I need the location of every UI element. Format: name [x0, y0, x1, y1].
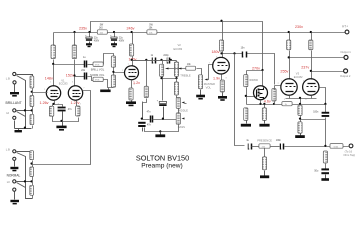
label 1.26v	[40, 101, 49, 105]
label BRILLANT	[6, 101, 22, 105]
capacitor C1 22u 400V (filter)	[85, 33, 99, 44]
wire treble wiper bus	[166, 68, 187, 70]
node V2a grid mix junction	[112, 71, 114, 73]
ground presence wiper	[260, 171, 269, 179]
resistor R19 V2b plate	[219, 22, 223, 58]
node brilliant grid junction	[31, 91, 33, 93]
ground R22	[241, 121, 251, 127]
resistor R16 10k to master	[186, 64, 196, 70]
capacitor C12 100n feedback	[313, 105, 329, 147]
resistor R2 10k 5W (rail dropper)	[147, 25, 157, 35]
node brilliant HI junction	[31, 109, 33, 111]
jack NORMAL LB tip	[6, 147, 16, 153]
svg-text:PRESENCE: PRESENCE	[257, 138, 272, 142]
svg-text:ECC83: ECC83	[174, 47, 183, 51]
capacitor C3 1u (V1a plate coupling)	[54, 57, 94, 67]
wire MOSFET source down	[260, 101, 262, 105]
wire gate node y70	[247, 70, 264, 72]
node V1a cathode	[52, 103, 54, 105]
svg-text:Output 1: Output 1	[340, 50, 351, 54]
node V3 cathode junction	[299, 97, 301, 99]
svg-text:Ohm Tap): Ohm Tap)	[343, 153, 355, 157]
svg-text:HI: HI	[6, 111, 9, 115]
svg-text:1: 1	[128, 63, 129, 65]
terminal HT+	[342, 25, 349, 34]
ground BRILLIANT LB sleeve	[10, 85, 19, 97]
node V1a plate tap	[52, 63, 54, 65]
wire B+ upper branch (y=20)	[91, 22, 263, 71]
wire gate into MOSFET	[247, 96, 256, 98]
node rail junction x89.5	[88, 31, 90, 33]
wire NORMAL HI switch contact	[17, 183, 26, 188]
node bus junction x274.6	[273, 103, 275, 105]
triode V1a cathode network: wire	[53, 101, 63, 107]
ground MASTER VOL	[196, 90, 205, 100]
svg-text:3: 3	[80, 104, 81, 106]
node rail junction x288.7	[288, 31, 290, 33]
wire NORMAL LB tip to R11	[17, 151, 33, 153]
label BASS	[178, 125, 185, 129]
node cathode ground junction	[60, 120, 62, 122]
capacitor C11 10n coupling	[241, 48, 247, 58]
node normal switch crossing	[24, 180, 26, 182]
wire drain to MOSFET	[262, 71, 264, 87]
wire feedback bus y103.8	[247, 104, 327, 106]
wire BRILLIANT HI switch diagonal	[17, 112, 26, 117]
svg-text:7: 7	[83, 88, 84, 90]
resistor R6 mix (norm)	[111, 75, 115, 87]
resistor R12 normal input mid	[30, 167, 34, 177]
wire V1b grid from normal channel	[32, 91, 91, 165]
wire V3 cathode bus	[286, 96, 317, 105]
svg-text:L.B: L.B	[6, 147, 10, 151]
svg-text:230v: 230v	[295, 25, 303, 29]
svg-text:255v: 255v	[280, 70, 288, 74]
svg-text:L.B: L.B	[6, 76, 10, 80]
triode V2a ECC83	[125, 66, 139, 80]
title SOLTON BV150	[136, 154, 189, 163]
resistor R7 input 1M (brilliant)	[30, 76, 34, 88]
wire presence bus to tap	[285, 146, 349, 148]
svg-text:BRILL VOL: BRILL VOL	[91, 67, 105, 71]
label 1.2v	[133, 81, 140, 85]
label 1.22v	[71, 101, 80, 105]
resistor R25 V3a plate	[287, 33, 291, 80]
capacitor C14 100n presence	[276, 140, 284, 149]
wire NORM VOL to mix resistor bottom	[104, 80, 114, 88]
node drain junction	[261, 69, 263, 71]
triode V3a ECC82	[281, 79, 297, 95]
pin numbers V3a	[278, 80, 285, 101]
wire mix resistors to V2a grid	[114, 68, 125, 76]
svg-text:2: 2	[44, 89, 45, 91]
svg-text:8: 8	[305, 99, 306, 101]
node rail junction x114	[113, 31, 115, 33]
node 47n right junction	[162, 118, 164, 120]
svg-text:Preamp (new): Preamp (new)	[141, 163, 182, 170]
svg-text:(To 16: (To 16	[345, 150, 353, 154]
capacitor C9 47n series	[143, 102, 177, 123]
node V2b plate tap	[220, 52, 222, 54]
resistor R1 1k5 5W (rail dropper)	[97, 25, 107, 35]
resistor R4 100k (V1b plate)	[72, 33, 76, 59]
node V2b feed junction on upper branch	[220, 20, 222, 22]
node V2a plate tap	[131, 59, 133, 61]
resistor R23 bus lower right	[262, 105, 266, 121]
label 170v	[129, 57, 137, 61]
wire V3b grid	[320, 88, 326, 105]
node rail junction x310.8	[310, 31, 312, 33]
resistor R20 V2b cathode	[220, 75, 224, 93]
label 246v	[127, 26, 135, 30]
svg-text:237v: 237v	[301, 65, 309, 69]
wire output2	[312, 71, 345, 73]
node rail junction x131.6	[131, 31, 133, 33]
svg-text:ECC82: ECC82	[294, 75, 303, 79]
terminal Output 2	[340, 69, 351, 78]
svg-text:ECC83: ECC83	[59, 82, 68, 86]
node cathode-bus junction	[299, 103, 301, 105]
node presence tap	[233, 52, 235, 54]
node gate junction	[245, 95, 247, 97]
resistor R22 bus lower left	[244, 108, 248, 121]
ground R23	[259, 121, 269, 127]
svg-text:V2: V2	[178, 43, 182, 47]
svg-text:7: 7	[209, 63, 210, 65]
jack NORMAL LB sleeve	[13, 157, 16, 160]
svg-text:MIDDLE: MIDDLE	[178, 108, 188, 112]
svg-text:1.22v: 1.22v	[71, 101, 80, 105]
resistor R29 feedback divider lower	[298, 122, 302, 133]
pin numbers V2a	[122, 63, 135, 86]
wire NORMAL switch vertical	[17, 153, 33, 199]
pin numbers V1b	[72, 82, 84, 106]
resistor R15 V2a cathode	[129, 81, 133, 101]
resistor R27 feedback series (bus)	[282, 102, 292, 106]
jack BRILLIANT LB tip	[6, 72, 16, 80]
triode V1a ECC83	[46, 86, 60, 100]
svg-text:TREBLE: TREBLE	[180, 74, 191, 78]
wire V1b plate feed	[74, 60, 76, 87]
svg-text:BRILLANT: BRILLANT	[6, 101, 22, 105]
potentiometer TREBLE	[133, 61, 179, 77]
label V3 ECC82	[294, 71, 303, 78]
resistor R28 feedback divider upper	[298, 105, 302, 122]
jack NORMAL HI tip	[7, 180, 16, 184]
svg-text:246v: 246v	[127, 26, 135, 30]
svg-text:2: 2	[278, 83, 279, 85]
label 4.6v	[264, 100, 271, 104]
label 180v	[212, 50, 220, 54]
node output2 tap	[310, 70, 312, 72]
svg-text:HI: HI	[7, 180, 10, 184]
resistor R9 V1a cathode	[49, 106, 53, 116]
wire V2a plate to tone caps	[133, 60, 177, 62]
wire master wiper to V2b grid	[208, 65, 214, 80]
svg-text:6: 6	[72, 82, 73, 84]
resistor R17 slope lower	[143, 61, 149, 120]
svg-text:VOL: VOL	[206, 85, 212, 89]
potentiometer MASTER VOL	[197, 69, 208, 89]
node presence tap junction	[324, 145, 326, 147]
wire B+ rail main (y=32)	[54, 32, 346, 34]
jack BRILLIANT HI sleeve	[13, 116, 16, 119]
potentiometer presence wiper leg	[262, 149, 266, 170]
node divider junction	[299, 118, 301, 120]
ground BRILLIANT HI	[15, 129, 22, 133]
label MASTER VOL	[204, 82, 215, 89]
node pot bottom left	[160, 77, 162, 79]
resistor R18 tone mid	[174, 79, 178, 98]
label MIDDLE	[178, 108, 188, 112]
label 255v	[280, 70, 288, 74]
label 237v	[301, 65, 309, 69]
wire NORMAL HI tip to divider	[17, 181, 33, 183]
svg-text:400V: 400V	[94, 40, 100, 42]
potentiometer BASS	[176, 109, 184, 125]
capacitor C13 1u presence in	[246, 140, 251, 149]
triode V1b ECC83	[68, 86, 82, 100]
label 235v	[79, 26, 87, 30]
label 230v	[295, 25, 303, 29]
wire divider to cap	[301, 119, 326, 121]
label BRILL VOL	[91, 67, 105, 71]
node V1b plate tap	[73, 74, 75, 76]
capacitor C5 47u (V1a cathode bypass)	[58, 107, 73, 121]
svg-text:180v: 180v	[212, 50, 220, 54]
ground C15	[321, 175, 329, 181]
wire presence to 100n	[271, 146, 280, 148]
triode V2b ECC83	[213, 57, 230, 74]
resistor R14 V2a plate	[130, 33, 134, 67]
label 148v	[45, 77, 53, 81]
jack NORMAL HI sleeve	[13, 188, 16, 191]
svg-text:100n: 100n	[276, 140, 282, 142]
ground feedback divider	[295, 134, 305, 139]
capacitor C6 1n	[151, 55, 156, 64]
svg-text:1.26v: 1.26v	[40, 101, 49, 105]
wire output1	[290, 57, 345, 59]
node rail junction x74.5	[73, 31, 75, 33]
wire pots bottom bus y78	[163, 77, 178, 79]
ground V1 cathodes	[56, 122, 66, 131]
svg-text:MASTER: MASTER	[204, 82, 215, 86]
svg-text:235v: 235v	[79, 26, 87, 30]
label 1.9v	[213, 76, 220, 80]
ground V2a cathode	[126, 101, 136, 107]
wire V3a grid	[275, 86, 282, 90]
resistor R24 V3a grid leak	[272, 89, 276, 105]
svg-text:220p: 220p	[163, 55, 169, 57]
ground NORMAL LB sleeve	[10, 161, 18, 172]
svg-text:2: 2	[122, 70, 123, 72]
wire V2b plate coupling run	[223, 54, 275, 85]
potentiometer BRILL VOL 470k	[93, 62, 103, 67]
svg-text:8: 8	[226, 78, 227, 80]
transistor Q1 MOSFET	[254, 86, 268, 100]
resistor R3 100k (V1a plate)	[51, 33, 55, 59]
ground volume pots	[100, 88, 110, 93]
node V3b grid bus junction	[324, 103, 326, 105]
wire BRILLIANT HI sleeve ground bus	[15, 121, 32, 129]
node switch ground junction	[24, 127, 26, 129]
svg-text:IRF800: IRF800	[249, 78, 258, 82]
resistor R8 input 68k (brilliant)	[30, 96, 34, 107]
node output1 tap	[288, 56, 290, 58]
title Preamp (new)	[141, 163, 182, 170]
svg-text:NORMAL: NORMAL	[7, 173, 21, 177]
label NORMAL	[7, 173, 21, 177]
jack BRILLIANT LB sleeve	[13, 81, 16, 84]
wire normal grid stub	[32, 161, 34, 168]
potentiometer PRESENCE 22k	[252, 138, 273, 148]
ground tone stack	[155, 132, 165, 138]
potentiometer slope 560k	[160, 61, 164, 77]
resistor R30 to speaker tap	[330, 144, 343, 149]
wire presence feed vertical	[235, 54, 245, 146]
capacitor C15 50u tap	[314, 164, 329, 175]
svg-text:1.2v: 1.2v	[133, 81, 140, 85]
wire BRILLIANT HI tip to divider node	[17, 110, 33, 112]
resistor R21 gate (IRF800)	[244, 71, 248, 105]
svg-text:270v: 270v	[252, 67, 260, 71]
label NORM VOL	[90, 73, 105, 77]
node tone tap x170.8	[170, 59, 172, 61]
svg-text:HT+: HT+	[342, 25, 348, 29]
svg-text:148v: 148v	[45, 77, 53, 81]
svg-text:1: 1	[50, 82, 51, 84]
label V2 ECC83	[174, 43, 183, 51]
ground below C2	[111, 43, 117, 47]
capacitor C2 22u 400V (filter)	[110, 33, 124, 44]
svg-text:V3: V3	[296, 71, 300, 75]
node normal lower junction	[30, 180, 32, 182]
wire BRILLIANT LB tip to R7	[17, 75, 33, 77]
svg-text:Output 2: Output 2	[340, 74, 351, 78]
potentiometer NORM VOL 470k	[93, 77, 103, 82]
resistor R26 V3b plate	[309, 33, 313, 80]
node normal grid junction	[30, 162, 32, 164]
wire bass bottom to ground bus	[145, 125, 179, 132]
wire V1a plate feed	[53, 60, 55, 87]
terminal Output 1	[340, 50, 351, 59]
svg-text:100n: 100n	[313, 112, 319, 114]
svg-text:152v: 152v	[66, 73, 74, 77]
wire brilliant grid to V1a	[33, 89, 48, 97]
svg-text:400V: 400V	[119, 40, 125, 42]
resistor R11 normal input top	[30, 151, 34, 160]
wire V1 cathode ground bus	[53, 117, 79, 122]
pin numbers V2b	[209, 56, 227, 79]
ground NORMAL HI sleeve	[10, 192, 19, 205]
node tone ground junction	[159, 130, 161, 132]
node source junction	[259, 103, 261, 105]
svg-text:3: 3	[284, 99, 285, 101]
pin numbers V1a	[44, 82, 59, 106]
node pot bottom right	[175, 77, 177, 79]
ground V2b cathode	[218, 93, 227, 101]
resistor R31 tap lower	[323, 151, 327, 163]
label 1.6v	[0, 0, 2, 2]
potentiometer MIDDLE	[176, 97, 186, 108]
svg-text:SOLTON BV150: SOLTON BV150	[136, 154, 189, 163]
svg-text:1.9v: 1.9v	[213, 76, 220, 80]
label 152v	[66, 73, 74, 77]
wire BRILL VOL top to mix resistor	[104, 54, 114, 65]
capacitor C4 22n (V1b plate coupling)	[75, 70, 94, 80]
resistor R10 V1b cathode	[76, 101, 80, 117]
wire R12 bottom stub	[32, 177, 34, 186]
pin numbers V3b	[303, 80, 319, 101]
node bus junction x264	[263, 103, 265, 105]
node brilliant switch crossing	[24, 109, 26, 111]
triode V3b ECC82	[303, 79, 319, 95]
capacitor C8 bass lower (electrolytic)	[157, 79, 167, 120]
jack BRILLIANT HI tip	[6, 109, 16, 115]
wire BRILLIANT switch vertical	[17, 76, 26, 129]
capacitor C10 47n lower left	[138, 122, 151, 132]
label 270v	[252, 67, 260, 71]
label V1 ECC83	[59, 79, 68, 86]
node tone tap x161.5	[160, 59, 162, 61]
resistor R5 mix (brill)	[111, 56, 115, 67]
resistor R13 normal input bottom	[30, 185, 34, 198]
node 47n left junction	[141, 118, 143, 120]
label IRF800	[249, 78, 258, 82]
terminal speaker tap	[343, 144, 355, 157]
svg-text:NORM VOL: NORM VOL	[90, 73, 105, 77]
wire R8 bottom stub	[32, 107, 34, 115]
label TREBLE	[180, 74, 191, 78]
node tone tap x146.3	[145, 59, 147, 61]
capacitor C7 220p	[163, 55, 169, 64]
resistor R8b input 68k (brilliant HI)	[30, 114, 34, 128]
ground below C1	[86, 43, 92, 47]
